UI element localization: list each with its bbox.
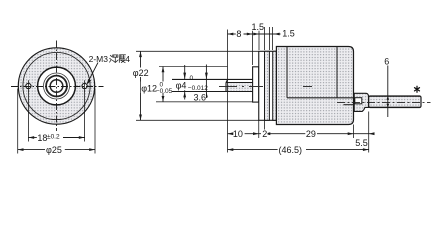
bearing inner ring (46, 76, 67, 97)
cable centerline (337, 101, 431, 103)
ext lines φ12 (159, 66, 228, 68)
label φ12 -0/-0.05 (141, 81, 175, 95)
inner panel right edge (336, 47, 338, 98)
cable bushing (354, 93, 368, 111)
dim φ22 (140, 51, 142, 67)
svg-text:φ12: φ12 (141, 83, 157, 93)
ext lines (228, 27, 273, 153)
svg-text:φ25: φ25 (46, 145, 62, 155)
shaft flat line (226, 82, 253, 84)
svg-text:(46.5): (46.5) (279, 145, 303, 155)
body φ25x29 (276, 47, 353, 125)
dim 3.6 (205, 65, 207, 99)
vertical centerline (56, 41, 58, 132)
svg-text:2: 2 (262, 129, 267, 139)
svg-text:5.5: 5.5 (355, 138, 368, 148)
asterisk (415, 86, 420, 92)
svg-text:2-M3: 2-M3 (89, 54, 109, 64)
M3 hole right (82, 83, 87, 88)
flange circle φ25 (18, 48, 94, 124)
svg-text:φ22: φ22 (133, 68, 149, 78)
svg-text:6: 6 (384, 57, 389, 67)
dim 18±0.2 (27, 91, 29, 142)
shared ext line (shaft bottom, extended) (172, 91, 228, 93)
shaft top line (228, 78, 253, 80)
flange gray bar 2 (273, 51, 277, 120)
shaft bottom line (226, 91, 253, 93)
M3 hole left (26, 83, 31, 88)
body circle φ22 (23, 52, 90, 119)
label φ4 -0/-0.012 (175, 75, 208, 92)
horizontal centerline (11, 86, 104, 88)
svg-text:1.5: 1.5 (282, 29, 295, 39)
cable channel bottom (344, 104, 355, 106)
boss circle φ12 (38, 67, 76, 105)
svg-text:0: 0 (190, 75, 194, 82)
kanji 度 (119, 55, 125, 63)
svg-text:−0.05: −0.05 (156, 88, 173, 95)
shared ext line (shaft top, extended) for φ4/3.6 (172, 78, 228, 80)
ext lines φ22 (to flange plates) (136, 50, 259, 52)
side view centerline (219, 86, 344, 88)
dim φ12 (162, 67, 164, 102)
leader 2-M3 (87, 63, 98, 84)
dim line 8 / 1.5 / 1.5 (228, 33, 236, 35)
svg-text:±0.2: ±0.2 (47, 133, 60, 140)
shaft circle φ4 (50, 80, 63, 93)
svg-text:8: 8 (236, 29, 241, 39)
svg-text:4: 4 (125, 54, 130, 64)
bearing circle (44, 73, 70, 99)
cable (369, 96, 421, 108)
ext lines (259, 112, 369, 153)
row2: (46.5) (228, 149, 278, 151)
shaft (with flat) (226, 83, 253, 92)
flange gray bar 1 (265, 51, 270, 120)
inner panel left edge (286, 47, 288, 98)
svg-text:18: 18 (37, 133, 47, 143)
svg-text:−0.012: −0.012 (188, 85, 208, 92)
chamfer (226, 79, 228, 82)
svg-text:10: 10 (233, 129, 243, 139)
boss φ12 (253, 67, 259, 102)
svg-text:1.5: 1.5 (252, 22, 265, 32)
dim φ4 (184, 65, 186, 100)
svg-text:φ4: φ4 (176, 80, 187, 90)
cable socket detail (355, 98, 362, 104)
inner panel bottom / cable channel top (287, 97, 355, 99)
kanji 深 (110, 55, 119, 63)
svg-text:29: 29 (306, 129, 316, 139)
flange block φ22 (259, 51, 277, 120)
row1: 10 | 2 | 29 | 5.5 (228, 133, 233, 135)
shaft tip cap (225, 83, 227, 92)
svg-text:3.6: 3.6 (194, 92, 207, 102)
dim φ25 (17, 89, 19, 154)
